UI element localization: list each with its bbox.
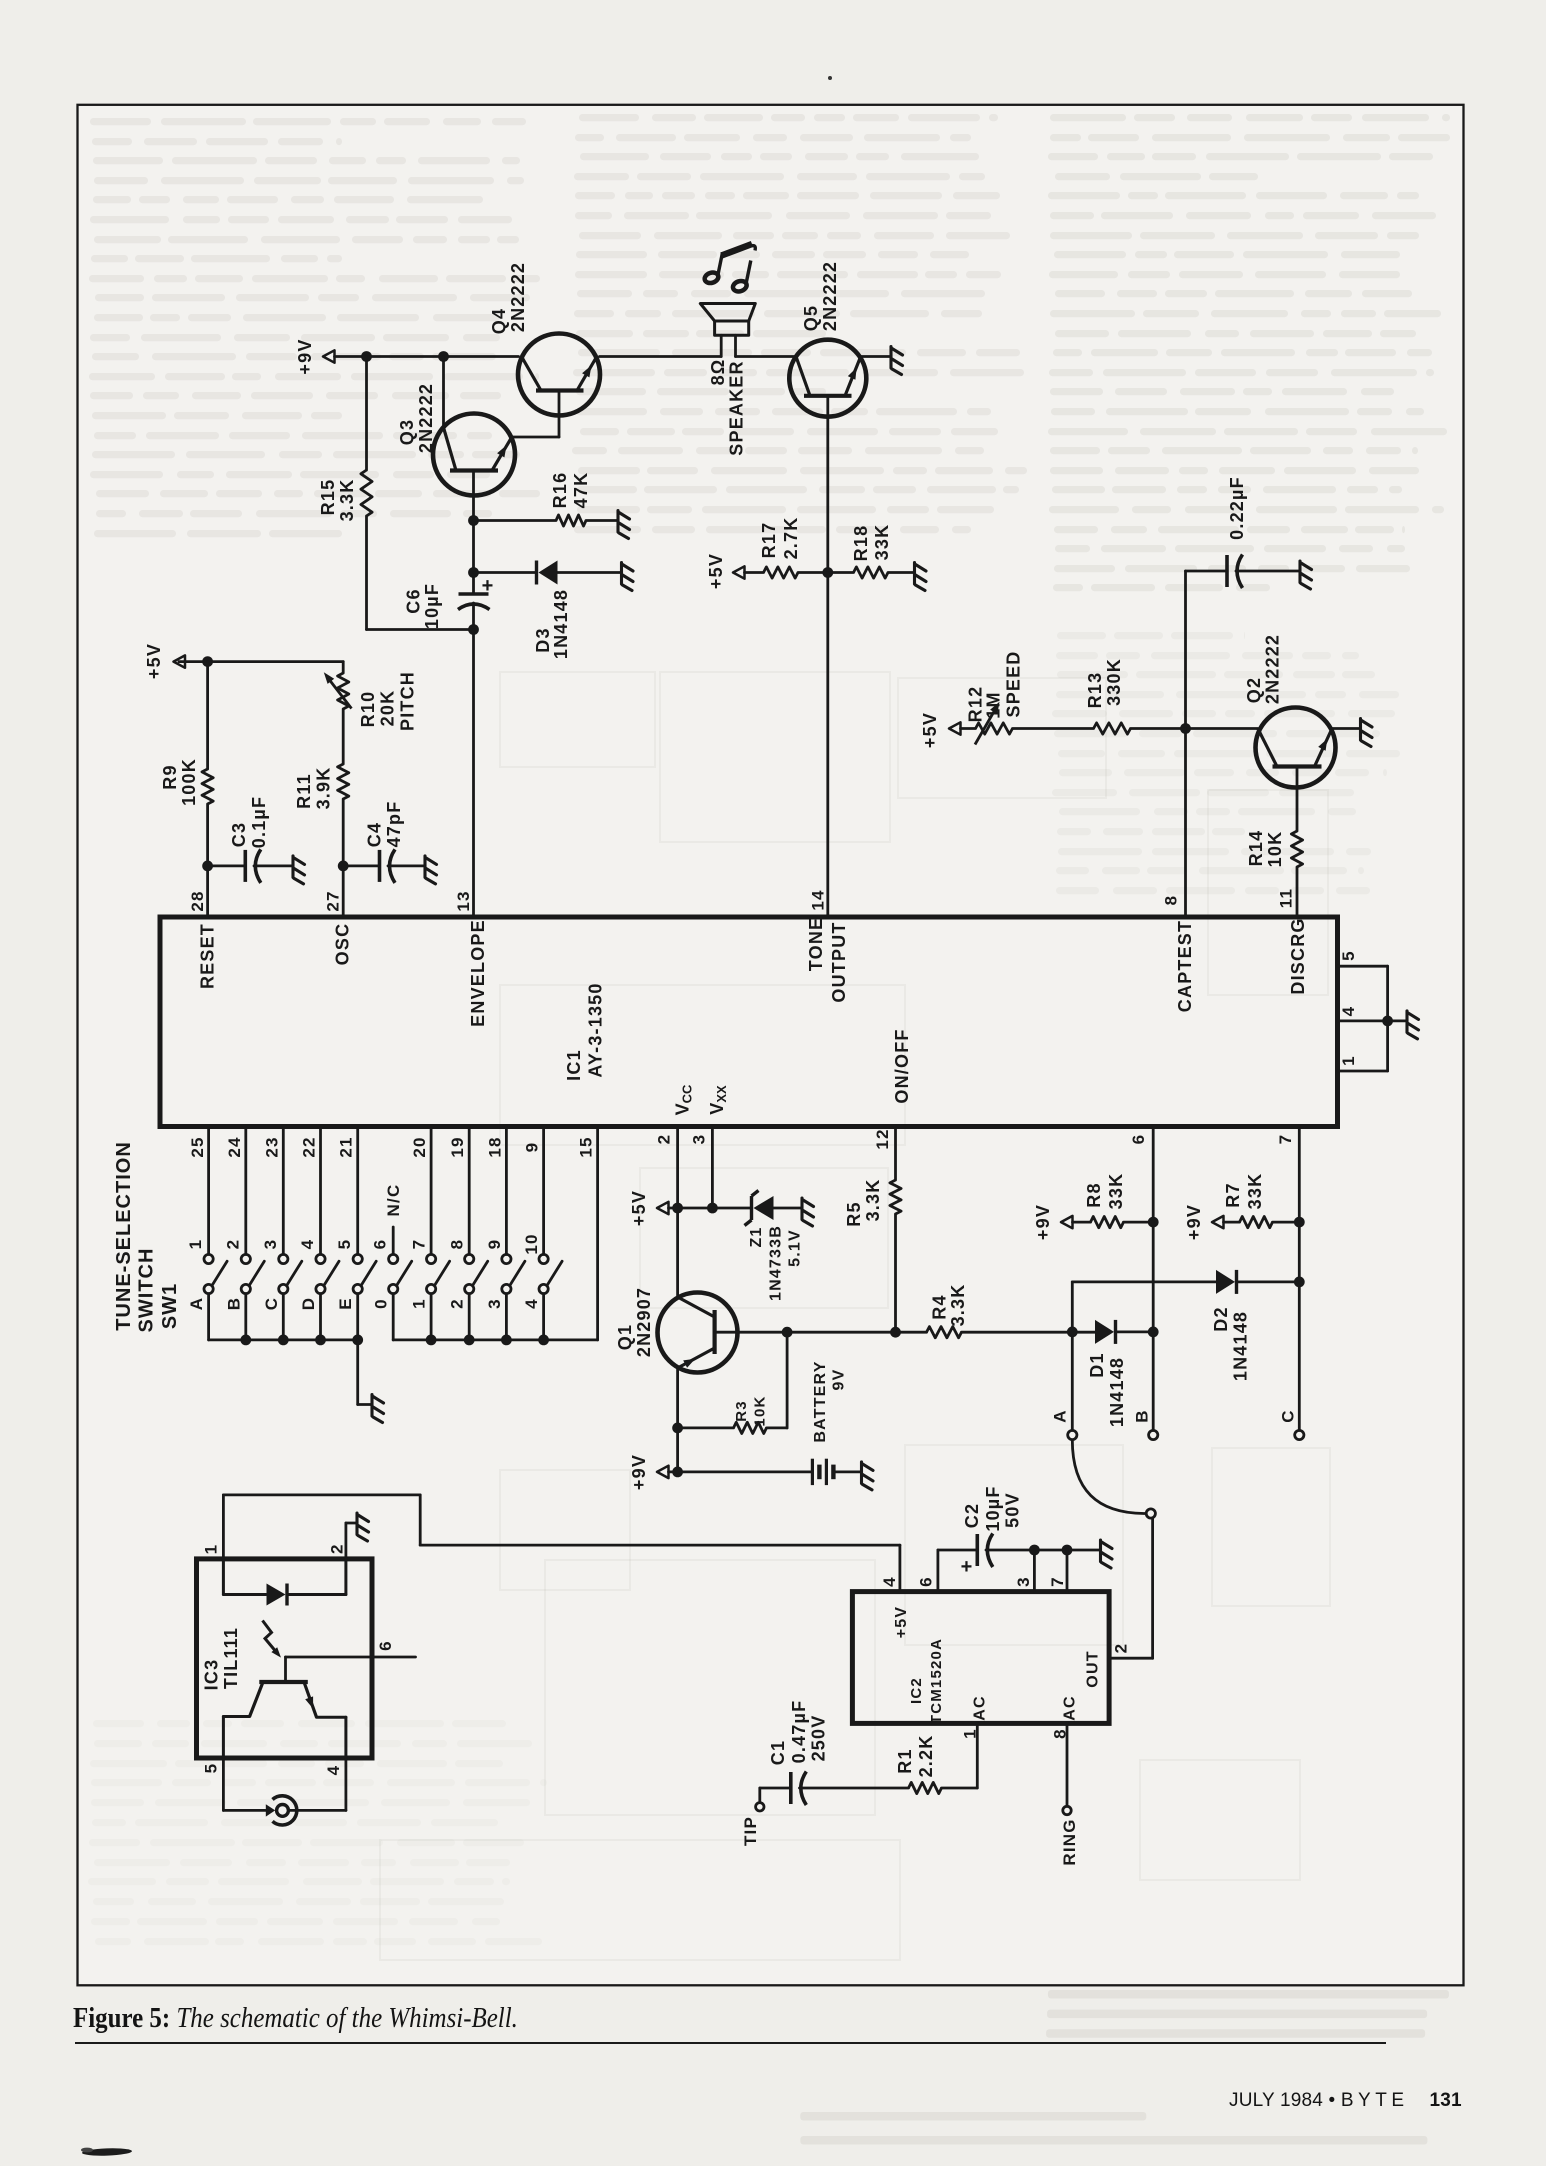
svg-text:+: + xyxy=(482,575,494,597)
svg-text:C1: C1 xyxy=(768,1740,788,1765)
svg-text:10µF: 10µF xyxy=(422,583,442,629)
ground at battery xyxy=(862,1462,874,1490)
svg-text:0.22µF: 0.22µF xyxy=(1227,476,1247,540)
wire Q3 collector xyxy=(442,357,445,428)
wire node to IC1 pin 14 xyxy=(826,573,829,917)
svg-text:33K: 33K xyxy=(872,524,892,561)
wire Q1 emitter down to +9V node xyxy=(676,1368,679,1472)
wire C1 to R1 xyxy=(800,1787,909,1790)
node junction switch bus xyxy=(352,1335,363,1346)
svg-text:3: 3 xyxy=(485,1298,504,1309)
ground at pins 5-4-1 xyxy=(1407,1011,1419,1039)
svg-text:SPEAKER: SPEAKER xyxy=(727,360,747,455)
wire bracket to ground xyxy=(1388,1020,1406,1023)
transistor Q2 2N2222 xyxy=(1256,708,1336,788)
svg-text:10µF: 10µF xyxy=(983,1485,1003,1531)
svg-text:1: 1 xyxy=(410,1298,429,1309)
svg-text:1N4733B: 1N4733B xyxy=(768,1225,785,1301)
capacitor C3 0.1uF xyxy=(244,850,248,882)
svg-text:R10: R10 xyxy=(358,691,378,728)
svg-text:4: 4 xyxy=(298,1239,317,1250)
wire D2 branch xyxy=(1072,1281,1216,1284)
svg-text:SWITCH: SWITCH xyxy=(136,1248,158,1333)
svg-text:D2: D2 xyxy=(1211,1306,1231,1331)
resistor R13 330K xyxy=(1094,723,1131,734)
svg-text:250V: 250V xyxy=(809,1715,829,1762)
wire 0.22uF to ground xyxy=(1236,570,1299,573)
svg-text:4: 4 xyxy=(522,1298,541,1309)
wire switch bus A-E xyxy=(209,1339,358,1342)
svg-text:2: 2 xyxy=(655,1134,674,1145)
wire IC3 base to pin 6 xyxy=(284,1657,287,1682)
svg-text:8Ω: 8Ω xyxy=(708,359,728,386)
transistor Q5 2N2222 xyxy=(789,340,866,417)
svg-text:C4: C4 xyxy=(365,822,385,847)
wire R9 top lead xyxy=(206,662,209,769)
ground at Q5 emitter xyxy=(891,347,903,375)
svg-text:TIP: TIP xyxy=(741,1816,760,1846)
svg-text:R13: R13 xyxy=(1085,672,1105,709)
IC3 phototransistor xyxy=(250,1682,317,1717)
svg-text:3: 3 xyxy=(261,1239,280,1250)
node junction pin3/+5V xyxy=(707,1203,718,1214)
svg-text:+9V: +9V xyxy=(629,1454,649,1490)
svg-text:20K: 20K xyxy=(378,690,398,727)
power symbol +5V (Q1) xyxy=(657,1202,669,1214)
bleed-through verso text, bottom-right above footer xyxy=(1046,1990,1502,2054)
svg-text:BATTERY: BATTERY xyxy=(812,1360,829,1442)
wire R13 to Q2 base node xyxy=(1131,727,1258,730)
svg-text:TIL111: TIL111 xyxy=(221,1627,241,1689)
wire R9 to C3 node xyxy=(206,804,209,866)
svg-text:2: 2 xyxy=(1112,1643,1131,1654)
svg-text:7: 7 xyxy=(1048,1576,1067,1587)
svg-text:A: A xyxy=(187,1297,206,1310)
wire R8 to pin6 column xyxy=(1124,1221,1154,1224)
svg-text:+9V: +9V xyxy=(1184,1204,1204,1240)
ground at C3 xyxy=(293,856,305,884)
svg-text:AC: AC xyxy=(1062,1695,1079,1721)
power symbol +5V (R17) xyxy=(733,566,745,578)
svg-text:+5V: +5V xyxy=(893,1606,910,1639)
wire R18 to ground xyxy=(888,571,914,574)
svg-text:+5V: +5V xyxy=(144,643,164,679)
svg-text:330K: 330K xyxy=(1104,658,1124,706)
node junction pin3 xyxy=(1029,1545,1040,1556)
wire OUT riser to jumper xyxy=(1151,1518,1154,1658)
svg-text:B: B xyxy=(224,1297,243,1310)
svg-text:3.3K: 3.3K xyxy=(948,1284,968,1327)
svg-text:D3: D3 xyxy=(533,627,553,652)
wire +5V node xyxy=(669,1207,713,1210)
svg-text:R8: R8 xyxy=(1084,1182,1104,1207)
svg-text:Q4: Q4 xyxy=(489,308,509,334)
resistor R1 2.2K xyxy=(909,1782,942,1793)
svg-text:AY-3-1350: AY-3-1350 xyxy=(586,982,606,1077)
svg-text:SW1: SW1 xyxy=(159,1283,181,1329)
svg-text:Q3: Q3 xyxy=(397,419,417,445)
resistor R5 3.3K xyxy=(890,1180,901,1214)
svg-text:50V: 50V xyxy=(1003,1492,1023,1528)
IC3 internal LED diode xyxy=(267,1584,286,1606)
power symbol +9V (top left) xyxy=(323,350,335,362)
svg-text:0.1µF: 0.1µF xyxy=(249,796,269,848)
svg-text:C3: C3 xyxy=(229,822,249,847)
switch SW1 section 8/2 xyxy=(465,1129,488,1340)
svg-text:R15: R15 xyxy=(318,479,338,516)
battery 9V xyxy=(812,1459,833,1485)
svg-text:4: 4 xyxy=(1339,1006,1358,1017)
svg-text:6: 6 xyxy=(376,1640,395,1651)
svg-text:OUTPUT: OUTPUT xyxy=(829,921,849,1002)
svg-text:+: + xyxy=(961,1556,973,1578)
svg-text:8: 8 xyxy=(448,1239,467,1250)
speaker 8-ohm xyxy=(700,304,755,336)
wire C4 to ground xyxy=(388,865,424,868)
node B terminal xyxy=(1149,1430,1158,1439)
wire +9V to R8 xyxy=(1073,1221,1091,1224)
node junction switch bus right xyxy=(538,1335,549,1346)
svg-text:+5V: +5V xyxy=(920,712,940,748)
svg-text:+9V: +9V xyxy=(295,338,315,374)
ground at C4 xyxy=(425,856,437,884)
scan speck top middle xyxy=(828,76,832,80)
wire R15 top lead xyxy=(365,357,368,471)
node junction D1/A xyxy=(1067,1327,1078,1338)
svg-text:1: 1 xyxy=(202,1544,221,1555)
potentiometer R12 1M SPEED xyxy=(976,723,1013,734)
node C terminal xyxy=(1295,1430,1304,1439)
horizontal rule below caption xyxy=(75,2042,1386,2044)
transistor Q1 2N2907 xyxy=(658,1293,738,1373)
svg-text:18: 18 xyxy=(486,1136,505,1157)
wire R11 to C4 node xyxy=(342,799,345,866)
wire +5V rail to R10 corner xyxy=(179,660,343,663)
svg-text:5: 5 xyxy=(202,1763,221,1774)
svg-text:TUNE-SELECTION: TUNE-SELECTION xyxy=(113,1141,135,1331)
wire R15 bottom lead to C6 node xyxy=(365,516,368,630)
wire IC2 pin 7 up xyxy=(1066,1550,1069,1592)
ground at Q2 xyxy=(1361,719,1373,747)
resistor R4 3.3K xyxy=(927,1327,962,1338)
ground at switch bus xyxy=(372,1395,384,1423)
node junction Q3 collector/+9V xyxy=(438,351,449,362)
svg-text:10: 10 xyxy=(522,1233,541,1254)
power symbol +9V (R7) xyxy=(1212,1216,1224,1228)
svg-text:+5V: +5V xyxy=(629,1190,649,1226)
svg-text:R18: R18 xyxy=(851,525,871,562)
svg-text:1N4148: 1N4148 xyxy=(1107,1357,1127,1427)
svg-text:R1: R1 xyxy=(895,1748,915,1773)
IC1 pins 5 4 1 bracket stubs xyxy=(1338,965,1388,968)
jumper wire arc from A xyxy=(1072,1440,1146,1514)
wire C4 branch xyxy=(343,865,379,868)
node junction pin7 xyxy=(1062,1545,1073,1556)
node junction base/R5 xyxy=(890,1327,901,1338)
svg-text:47K: 47K xyxy=(571,472,591,509)
svg-text:2.7K: 2.7K xyxy=(781,517,801,560)
capacitor C2 10uF 50V xyxy=(975,1534,979,1566)
wire D2 to pin7 column xyxy=(1238,1281,1300,1284)
capacitor C6 10uF xyxy=(459,592,489,596)
wire C3 branch xyxy=(208,865,245,868)
wire node A column xyxy=(1071,1332,1074,1431)
svg-text:3.3K: 3.3K xyxy=(337,479,357,522)
power symbol +5V (R12) xyxy=(949,722,961,734)
IC IC3 TIL111 body xyxy=(197,1559,373,1758)
wire speaker to Q5 collector xyxy=(736,355,797,358)
resistor R18 33K xyxy=(828,571,854,574)
wire D1 to pin6 column xyxy=(1117,1331,1154,1334)
svg-text:9: 9 xyxy=(485,1239,504,1250)
svg-text:2.2K: 2.2K xyxy=(916,1735,936,1778)
ground at 0.22uF xyxy=(1300,561,1312,589)
svg-text:R11: R11 xyxy=(294,773,314,809)
wire C3 node to IC1 pin 28 xyxy=(206,866,209,916)
svg-text:19: 19 xyxy=(448,1136,467,1157)
svg-text:1: 1 xyxy=(186,1239,205,1250)
switch SW1 section 3/C xyxy=(279,1129,302,1340)
wire IC3 pin 5 down xyxy=(222,1758,225,1810)
wire capacitor 0.22uF branch xyxy=(1186,570,1227,573)
potentiometer R10 20K PITCH xyxy=(338,673,349,709)
svg-text:TCM1520A: TCM1520A xyxy=(928,1638,945,1724)
node junction pins 5-4-1 xyxy=(1382,1016,1393,1027)
svg-text:B: B xyxy=(1133,1409,1152,1422)
wire R5 from IC1 pin 12 xyxy=(894,1129,897,1180)
svg-text:2N2222: 2N2222 xyxy=(508,262,528,332)
svg-text:28: 28 xyxy=(188,890,207,911)
svg-text:10K: 10K xyxy=(1265,831,1285,868)
wire TIP to C1 xyxy=(760,1787,790,1790)
svg-text:R4: R4 xyxy=(930,1294,950,1319)
switch SW1 section 2/B xyxy=(241,1129,264,1340)
svg-text:3.3K: 3.3K xyxy=(863,1179,883,1222)
bleed-through verso text top-left column xyxy=(90,118,151,125)
wire C2 to ground over pins 3,7 xyxy=(986,1549,1100,1552)
wire IC3 pin 2 to ground xyxy=(344,1523,347,1559)
svg-text:9V: 9V xyxy=(831,1369,848,1391)
wire IC2 pin 2 stub xyxy=(1109,1657,1153,1660)
wire +9V rail to Q4 xyxy=(335,355,519,358)
wire Q3 base down xyxy=(472,471,475,595)
svg-text:DISCRG: DISCRG xyxy=(1288,917,1308,994)
wire IC3 pin 1 up xyxy=(222,1495,225,1559)
wire +5V to R12 xyxy=(961,727,976,730)
svg-text:1N4148: 1N4148 xyxy=(1231,1311,1251,1381)
svg-text:2: 2 xyxy=(223,1239,242,1250)
svg-text:21: 21 xyxy=(337,1136,356,1157)
resistor R7 33K xyxy=(1240,1217,1273,1228)
svg-text:IC3: IC3 xyxy=(202,1659,222,1691)
node A terminal xyxy=(1068,1430,1077,1439)
svg-text:14: 14 xyxy=(809,889,828,910)
svg-text:R14: R14 xyxy=(1246,830,1266,867)
switch SW1 section 9/3 xyxy=(502,1129,525,1340)
wire Q4 collector to speaker xyxy=(600,355,722,358)
svg-text:E: E xyxy=(336,1297,355,1310)
diode D3 1N4148 xyxy=(535,561,538,585)
svg-text:R3: R3 xyxy=(733,1400,750,1422)
wire R10 to R11 xyxy=(342,709,345,764)
svg-text:12: 12 xyxy=(873,1128,892,1149)
node junction switch bus right xyxy=(501,1335,512,1346)
svg-text:15: 15 xyxy=(577,1136,596,1157)
wire +9V to battery xyxy=(669,1471,812,1474)
wire +5V to R17 xyxy=(745,571,764,574)
svg-text:TONE: TONE xyxy=(806,917,826,971)
svg-text:R12: R12 xyxy=(966,686,986,723)
wire Q5 emitter to ground xyxy=(861,355,891,358)
wire to R16 xyxy=(474,519,557,522)
svg-text:Q2: Q2 xyxy=(1244,677,1264,703)
wire +9V to R7 xyxy=(1224,1221,1240,1224)
resistor R3 10K xyxy=(678,1427,734,1430)
ground at R16 xyxy=(618,511,630,539)
node junction pin2/+5V xyxy=(672,1203,683,1214)
ground at Z1 xyxy=(802,1198,814,1226)
capacitor 0.22uF xyxy=(1225,555,1229,587)
svg-text:4: 4 xyxy=(324,1765,343,1776)
svg-text:A: A xyxy=(1051,1409,1070,1422)
wire IC2 pin 8 down to RING xyxy=(1066,1723,1069,1806)
IC3 internal LED wires xyxy=(222,1559,225,1595)
node junction R8/pin6 xyxy=(1148,1217,1159,1228)
svg-text:6: 6 xyxy=(371,1239,390,1250)
node junction 0.22uF/R13/Q2 xyxy=(1180,723,1191,734)
wire bus to ground (E) xyxy=(356,1340,359,1405)
wire Q2 emitter to ground xyxy=(1332,727,1360,730)
node junction tone output xyxy=(822,567,833,578)
scan smudge bottom left xyxy=(75,2140,155,2160)
svg-text:2N2222: 2N2222 xyxy=(416,383,436,453)
wire R17 to node xyxy=(798,571,828,574)
svg-text:Q1: Q1 xyxy=(615,1324,635,1350)
svg-text:27: 27 xyxy=(324,890,343,911)
svg-text:0.47µF: 0.47µF xyxy=(789,1700,809,1764)
svg-text:4: 4 xyxy=(880,1576,899,1587)
wire R4 to D1 node xyxy=(962,1331,1096,1334)
switch SW1 section 4/D xyxy=(316,1129,339,1340)
svg-text:PITCH: PITCH xyxy=(398,671,418,731)
bleed-through verso text top-right column xyxy=(1050,114,1126,121)
svg-text:Q5: Q5 xyxy=(801,305,821,331)
node junction switch bus xyxy=(315,1335,326,1346)
caption Figure 5 xyxy=(73,2002,847,2035)
jumper terminal circle xyxy=(1146,1509,1155,1518)
svg-text:3: 3 xyxy=(690,1134,709,1145)
node junction switch bus right xyxy=(426,1335,437,1346)
svg-text:R9: R9 xyxy=(160,764,180,789)
IC IC2 TCM1520A body xyxy=(852,1592,1109,1724)
svg-text:7: 7 xyxy=(1276,1134,1295,1145)
diode D1 1N4148 xyxy=(1095,1320,1114,1344)
svg-text:47pF: 47pF xyxy=(384,801,404,848)
capacitor C1 0.47uF 250V xyxy=(789,1772,793,1804)
switch SW1 section 10/4 xyxy=(539,1129,562,1340)
wire R1 to pin 1 xyxy=(942,1787,978,1790)
wire IC2 pin 6 up xyxy=(937,1550,940,1592)
node junction R3/emitter xyxy=(672,1423,683,1434)
svg-text:OUT: OUT xyxy=(1085,1650,1102,1687)
svg-text:5.1V: 5.1V xyxy=(787,1229,804,1267)
footer JULY 1984 BYTE 131 xyxy=(1229,2090,1462,2112)
wire C6 to node xyxy=(472,603,475,630)
node junction R15/+9V xyxy=(361,351,372,362)
svg-text:2: 2 xyxy=(448,1298,467,1309)
IC3 emitter to pin 4 xyxy=(317,1716,346,1719)
wire R5 to base line xyxy=(894,1214,897,1332)
wire battery to ground xyxy=(833,1471,860,1474)
svg-text:AC: AC xyxy=(972,1695,989,1721)
resistor R11 3.9K xyxy=(338,764,349,799)
musical note decoration xyxy=(703,244,755,293)
wire node down to IC1 pin 8 xyxy=(1184,729,1187,917)
svg-text:2N2222: 2N2222 xyxy=(820,261,840,331)
wire IC1 pin 3 down xyxy=(711,1129,714,1208)
svg-text:R17: R17 xyxy=(759,522,779,559)
wire switch bus 0-4 to pin 15 xyxy=(393,1339,597,1342)
wire IC1 pin 2 down xyxy=(676,1129,679,1297)
svg-text:OSC: OSC xyxy=(333,923,353,966)
svg-text:1: 1 xyxy=(1339,1055,1358,1066)
resistor R16 47K xyxy=(556,515,586,526)
wire C4 node to IC1 pin 27 xyxy=(342,866,345,916)
svg-text:22: 22 xyxy=(300,1136,319,1157)
svg-text:N/C: N/C xyxy=(384,1184,403,1217)
wire D2 corner down to D1 node xyxy=(1071,1282,1074,1332)
resistor R15 3.3K xyxy=(361,470,372,516)
transistor Q4 2N2222 xyxy=(518,334,600,416)
power symbol +5V (R9) xyxy=(174,655,186,667)
resistor R14 10K xyxy=(1291,831,1302,867)
wire Q2 base to R14 xyxy=(1296,767,1299,832)
power symbol +9V (R8) xyxy=(1061,1216,1073,1228)
svg-text:D: D xyxy=(299,1297,318,1310)
node junction switch bus xyxy=(240,1335,251,1346)
wire to D3 xyxy=(474,571,536,574)
svg-text:33K: 33K xyxy=(1106,1173,1126,1210)
bleed-through verso text left column lower xyxy=(93,1720,144,1727)
node junction R9 xyxy=(202,656,213,667)
power symbol +9V (battery) xyxy=(657,1466,669,1478)
svg-text:2: 2 xyxy=(328,1543,347,1554)
diode D2 1N4148 xyxy=(1216,1270,1235,1294)
svg-text:CAPTEST: CAPTEST xyxy=(1175,920,1195,1012)
wire R10 top lead xyxy=(342,662,345,673)
wire +5V to zener Z1 xyxy=(712,1207,750,1210)
node junction D3/C6 xyxy=(468,567,479,578)
wire D3 to ground xyxy=(558,571,621,574)
svg-text:C: C xyxy=(262,1297,281,1310)
svg-text:Z1: Z1 xyxy=(748,1226,765,1247)
wire IC2 pin 1 down xyxy=(976,1723,979,1788)
svg-text:0: 0 xyxy=(372,1298,391,1309)
wire IC3 pin1 to IC2 pin4 +5V run xyxy=(223,1494,420,1497)
svg-text:100K: 100K xyxy=(179,758,199,806)
svg-text:2N2222: 2N2222 xyxy=(1263,634,1283,704)
terminal RING xyxy=(1063,1806,1071,1814)
node junction base/R3 xyxy=(782,1327,793,1338)
svg-text:11: 11 xyxy=(1277,888,1296,908)
svg-text:20: 20 xyxy=(410,1136,429,1157)
svg-text:23: 23 xyxy=(263,1136,282,1157)
svg-text:7: 7 xyxy=(410,1239,429,1250)
wire R7 to pin7 column xyxy=(1273,1221,1300,1224)
svg-text:+5V: +5V xyxy=(706,553,726,589)
node junction switch bus right xyxy=(464,1335,475,1346)
svg-text:13: 13 xyxy=(454,890,473,911)
